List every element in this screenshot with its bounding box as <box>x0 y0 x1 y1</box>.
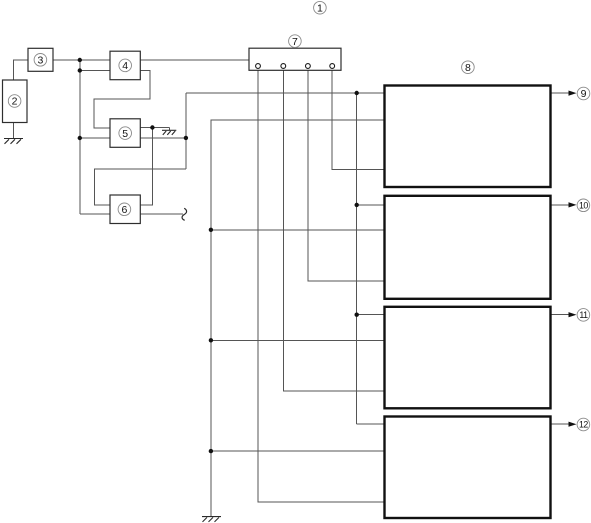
svg-text:12: 12 <box>579 420 588 430</box>
svg-text:8: 8 <box>465 62 471 74</box>
svg-text:11: 11 <box>579 310 588 320</box>
svg-text:10: 10 <box>579 200 588 210</box>
svg-text:4: 4 <box>122 60 128 72</box>
svg-text:5: 5 <box>122 128 128 140</box>
svg-text:3: 3 <box>37 55 43 67</box>
svg-text:2: 2 <box>12 96 18 108</box>
svg-text:1: 1 <box>317 2 323 14</box>
svg-text:7: 7 <box>292 36 298 48</box>
svg-text:9: 9 <box>581 88 587 100</box>
svg-text:6: 6 <box>121 204 127 216</box>
